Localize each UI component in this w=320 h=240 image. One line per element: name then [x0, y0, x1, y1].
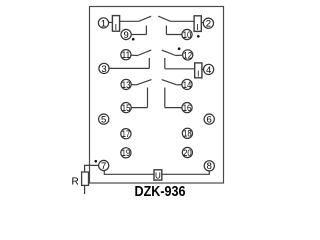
wire terminal16 to post — [165, 107, 183, 109]
resistor lead — [84, 185, 86, 194]
svg-text:8: 8 — [207, 161, 212, 172]
blade stub from terminal 12 — [176, 54, 183, 56]
terminal 6 — [204, 114, 214, 124]
svg-text:16: 16 — [183, 103, 192, 114]
svg-text:13: 13 — [122, 80, 131, 91]
blade stub from terminal 14 — [177, 84, 183, 86]
terminal 19 — [121, 148, 131, 158]
svg-text:R: R — [72, 176, 79, 187]
terminal 5 — [99, 114, 109, 124]
svg-text:1: 1 — [101, 18, 106, 29]
switch blade (row1 right) — [158, 16, 170, 21]
switch blade (row2 right) — [162, 50, 176, 55]
wire post to contact box (row2 right) — [165, 68, 195, 70]
svg-text:3: 3 — [101, 64, 106, 75]
terminal 1 — [98, 18, 108, 28]
switch blade (row2 left) — [138, 50, 152, 55]
svg-text:15: 15 — [122, 103, 131, 114]
fixed contact post (row2 right) — [164, 58, 166, 69]
wire contact box to terminal 4 — [202, 68, 204, 70]
svg-text:14: 14 — [183, 80, 192, 91]
contact box I (terminal 4) — [195, 63, 202, 79]
switch blade (row3 left) — [137, 80, 152, 85]
wire contact box to blade pivot (row1 left) — [120, 20, 139, 22]
blade stub from terminal 11 — [131, 54, 138, 56]
terminal 13 — [121, 79, 131, 89]
contact box I (terminal 1) — [112, 16, 119, 32]
svg-text:I: I — [197, 70, 199, 79]
svg-text:U: U — [155, 171, 161, 180]
terminal circles with numbers — [98, 18, 214, 171]
svg-text:6: 6 — [207, 115, 212, 126]
terminal 12 — [183, 50, 193, 60]
svg-text:7: 7 — [101, 161, 106, 172]
wire terminal9 to post — [131, 34, 147, 36]
svg-text:4: 4 — [206, 65, 211, 76]
svg-text:11: 11 — [122, 50, 131, 61]
svg-text:I: I — [196, 23, 198, 32]
terminal 17 — [121, 129, 131, 139]
polarity dot near terminal 7 — [95, 160, 98, 163]
svg-text:18: 18 — [183, 129, 192, 140]
wire coil to terminal 8 — [162, 170, 210, 174]
svg-text:9: 9 — [123, 30, 128, 41]
contact box I (terminal 2) — [194, 16, 201, 32]
wire terminal15 to post — [131, 107, 148, 109]
svg-text:10: 10 — [183, 30, 192, 41]
relay case outline — [90, 7, 224, 184]
svg-text:17: 17 — [122, 129, 131, 140]
coil U — [154, 170, 162, 181]
terminal 16 — [182, 103, 192, 113]
blade stub from terminal 13 — [131, 84, 137, 86]
terminal 11 — [121, 50, 131, 60]
terminal 14 — [182, 79, 192, 89]
terminal 15 — [121, 103, 131, 113]
wire contact box to terminal 2 — [201, 21, 204, 23]
fixed contact post (row2 left) — [148, 58, 150, 68]
svg-text:19: 19 — [122, 148, 131, 159]
switch blade (row3 right) — [162, 80, 177, 85]
polarity dot near terminal 12 — [178, 47, 181, 50]
terminal 9 — [121, 29, 131, 39]
terminal 20 — [182, 147, 192, 157]
terminal 2 — [203, 18, 213, 28]
fixed contact post (row1 right) — [165, 26, 167, 35]
svg-text:12: 12 — [183, 50, 192, 61]
svg-text:2: 2 — [206, 19, 211, 30]
wire terminal10 to post — [166, 34, 182, 36]
wire terminal1 to contact box — [108, 21, 112, 23]
polarity dot below contact box 2 — [197, 35, 200, 38]
wire terminal7 to coil — [104, 170, 154, 174]
wire terminal7 to resistor — [85, 165, 100, 171]
fixed contact post (row3 left) — [147, 88, 149, 108]
switch blade (row1 left) — [139, 16, 151, 21]
svg-text:20: 20 — [183, 148, 192, 159]
terminal 4 — [204, 64, 214, 74]
fixed contact post (row3 right) — [164, 88, 166, 108]
terminal 10 — [182, 29, 192, 39]
svg-text:I: I — [115, 23, 117, 32]
terminal 3 — [99, 63, 109, 73]
terminal 8 — [204, 161, 214, 171]
svg-text:5: 5 — [101, 115, 106, 126]
terminal 7 — [99, 160, 109, 170]
polarity dot near terminal 9 — [132, 38, 135, 41]
wire blade pivot to contact box (row1 right) — [171, 20, 195, 22]
wire terminal3 to post — [109, 67, 150, 69]
fixed contact post (row1 left) — [145, 26, 147, 35]
terminal 18 — [182, 128, 192, 138]
resistor R — [82, 172, 89, 185]
svg-text:DZK-936: DZK-936 — [135, 183, 186, 200]
